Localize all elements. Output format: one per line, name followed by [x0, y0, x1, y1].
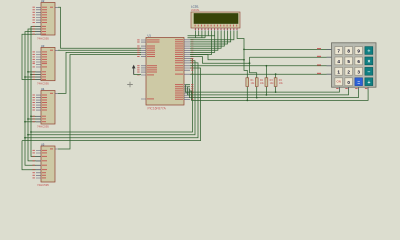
MCU U1 left pins — [141, 40, 146, 99]
origin marker cross — [127, 82, 133, 88]
wire bottom bundle line3 — [25, 63, 198, 138]
svg-text:ON: ON — [336, 80, 341, 84]
wire keypad row3 from MCU — [190, 65, 332, 67]
wire bottom bundle line2 — [28, 61, 195, 135]
svg-text:74HC595: 74HC595 — [37, 36, 49, 40]
keypad key plus — [365, 78, 373, 86]
IC U4 pins — [36, 93, 58, 121]
svg-text:÷: ÷ — [368, 49, 371, 55]
IC U5 pin number marks — [33, 150, 35, 179]
keypad bottom pins — [339, 87, 368, 90]
MCU U1 left pin number marks — [137, 39, 139, 75]
IC U3 body — [41, 47, 55, 80]
IC U3 pin name marks — [42, 50, 53, 80]
keypad key 3 — [355, 67, 363, 75]
MCU U1 right pins — [184, 40, 190, 100]
keypad key 4 — [335, 57, 343, 65]
resistor R2 — [255, 78, 264, 87]
IC U2 pin name marks — [42, 7, 53, 35]
wire IC2 top pin to MCU — [58, 49, 141, 51]
svg-text:LM016L: LM016L — [191, 9, 200, 12]
keypad key multiply — [365, 57, 373, 65]
resistor R3 — [265, 78, 274, 87]
wire R3 top tap — [265, 66, 267, 78]
keypad key minus — [365, 67, 373, 75]
wire LCD pin14 to keypad column net — [237, 31, 247, 78]
svg-text:74HC595: 74HC595 — [37, 124, 49, 128]
power terminal arrow — [132, 65, 141, 75]
LCD1 display body — [191, 12, 240, 28]
IC U4 pin name marks — [42, 93, 53, 122]
svg-text:×: × — [367, 59, 370, 65]
wire R4 bottom to column line — [275, 87, 277, 92]
keypad left pin marks — [317, 48, 321, 74]
keypad left pins — [327, 49, 332, 74]
LCD1 pin number marks — [195, 29, 238, 30]
IC U2 body — [41, 3, 55, 36]
IC U2 pin number marks — [33, 7, 35, 35]
junction dots keypad row nets — [243, 49, 276, 76]
svg-text:LCD1: LCD1 — [191, 5, 199, 9]
resistor R4 — [274, 78, 283, 87]
MCU U1 left pin name marks — [147, 39, 160, 99]
wire LCD pin8 to MCU — [190, 31, 218, 50]
wire keypad row1 — [244, 48, 332, 50]
wire keypad column 1 to MCU — [186, 85, 340, 92]
wire LCD power rail 1 — [188, 35, 215, 37]
IC U4 body — [41, 91, 55, 125]
svg-text:3: 3 — [357, 69, 360, 74]
svg-text:74HC595: 74HC595 — [37, 183, 49, 187]
MCU U1 right pin name marks — [175, 39, 183, 100]
svg-text:−: − — [367, 70, 370, 76]
wire LCD pin12 to MCU — [190, 31, 231, 42]
svg-text:U4: U4 — [41, 87, 45, 91]
wire bus net A (vertical x=31 IC1pin1 to IC4 pin, taps) — [31, 27, 44, 157]
wire LCD pin7 to MCU — [190, 31, 215, 52]
IC U2 pins — [36, 7, 58, 34]
svg-text:74HC595: 74HC595 — [37, 81, 49, 85]
keypad key equals — [355, 78, 363, 86]
svg-text:U5: U5 — [41, 143, 45, 147]
keypad key 0 — [345, 78, 353, 86]
wire LCD pin9 to MCU — [190, 31, 221, 48]
svg-text:0: 0 — [347, 80, 350, 85]
svg-text:2: 2 — [347, 69, 350, 74]
wire LCD pin1 drop — [195, 31, 197, 38]
wire LCD power rail 2 — [188, 37, 206, 39]
wire bus net C (vertical x=25) — [25, 32, 44, 166]
wire LCD pin2 drop — [198, 31, 200, 36]
wire bus net D (vertical x=22, upper segment ends at IC2) — [22, 34, 44, 170]
IC U5 pin name marks — [42, 148, 53, 178]
wire LCD pin10 to MCU — [190, 31, 224, 46]
svg-text:5: 5 — [347, 59, 350, 64]
wire LCD pin11 to MCU — [190, 31, 228, 44]
keypad key 2 — [345, 67, 353, 75]
svg-text:8: 8 — [347, 49, 350, 54]
wire bus net B (vertical x=28) — [28, 29, 44, 161]
LCD1 pin name marks — [195, 25, 238, 27]
wire LCD pin3 drop — [201, 31, 203, 38]
svg-text:U3: U3 — [41, 44, 45, 48]
keypad key 8 — [345, 47, 353, 55]
keypad bottom pin number marks — [336, 88, 367, 89]
svg-text:7: 7 — [337, 49, 340, 54]
svg-text:=: = — [357, 80, 360, 85]
junction dots left bus — [24, 71, 32, 139]
svg-text:+: + — [367, 80, 370, 86]
wire MCU stub to row2 vertical — [190, 57, 250, 64]
keypad key 5 — [345, 57, 353, 65]
wire LCD pin5 drop — [207, 31, 209, 36]
wire keypad row2 net — [250, 57, 332, 78]
wire keypad column 3 to MCU — [190, 87, 359, 97]
wire IC3 top pin to MCU — [58, 52, 141, 93]
svg-text:6: 6 — [357, 59, 360, 64]
wire bottom bundle line4 — [22, 68, 201, 141]
svg-text:1: 1 — [337, 69, 340, 74]
IC U5 body — [41, 146, 55, 182]
wire keypad row4 from MCU — [190, 73, 332, 75]
svg-text:9: 9 — [357, 49, 360, 54]
svg-text:PIC16F877A: PIC16F877A — [148, 106, 167, 110]
wire keypad column 2 to MCU — [188, 87, 349, 95]
wire LCD pin13 to MCU — [190, 31, 234, 40]
MCU U1 body — [146, 38, 184, 106]
resistor R1 — [246, 78, 255, 87]
wire R4 top tap — [275, 74, 277, 78]
wire R1 bottom to column line — [246, 87, 248, 101]
wire LCD pin4 drop — [204, 31, 206, 38]
svg-text:U2: U2 — [41, 0, 45, 3]
IC U5 pins — [36, 149, 58, 178]
wire IC4 top pin to MCU — [58, 55, 141, 150]
wire keypad column 4 to MCU — [190, 87, 368, 100]
MCU U1 right pin number marks — [191, 39, 193, 100]
svg-text:4: 4 — [337, 59, 340, 64]
keypad key divide — [365, 47, 373, 55]
keypad key 6 — [355, 57, 363, 65]
wire MCU stub to row1 vertical — [190, 55, 244, 60]
IC U3 pins — [36, 50, 58, 79]
wire IC1 top pin to MCU pin RA? — [58, 7, 141, 48]
IC U3 pin number marks — [33, 51, 35, 80]
wire R2 bottom to column line — [256, 87, 258, 98]
wire R3 bottom to column line — [265, 87, 267, 95]
LCD1 pins — [196, 28, 238, 31]
junction dots resistor bottoms — [246, 91, 276, 101]
keypad key 7 — [335, 47, 343, 55]
IC U4 pin number marks — [33, 95, 35, 123]
wire LCD pin6 to MCU — [190, 31, 212, 55]
keypad key 9 — [355, 47, 363, 55]
wire bottom bundle MCU to bus line1 — [31, 59, 193, 132]
keypad key ON/C — [335, 78, 343, 86]
keypad key 1 — [335, 67, 343, 75]
keypad body — [332, 43, 377, 87]
svg-text:U1: U1 — [148, 34, 152, 38]
